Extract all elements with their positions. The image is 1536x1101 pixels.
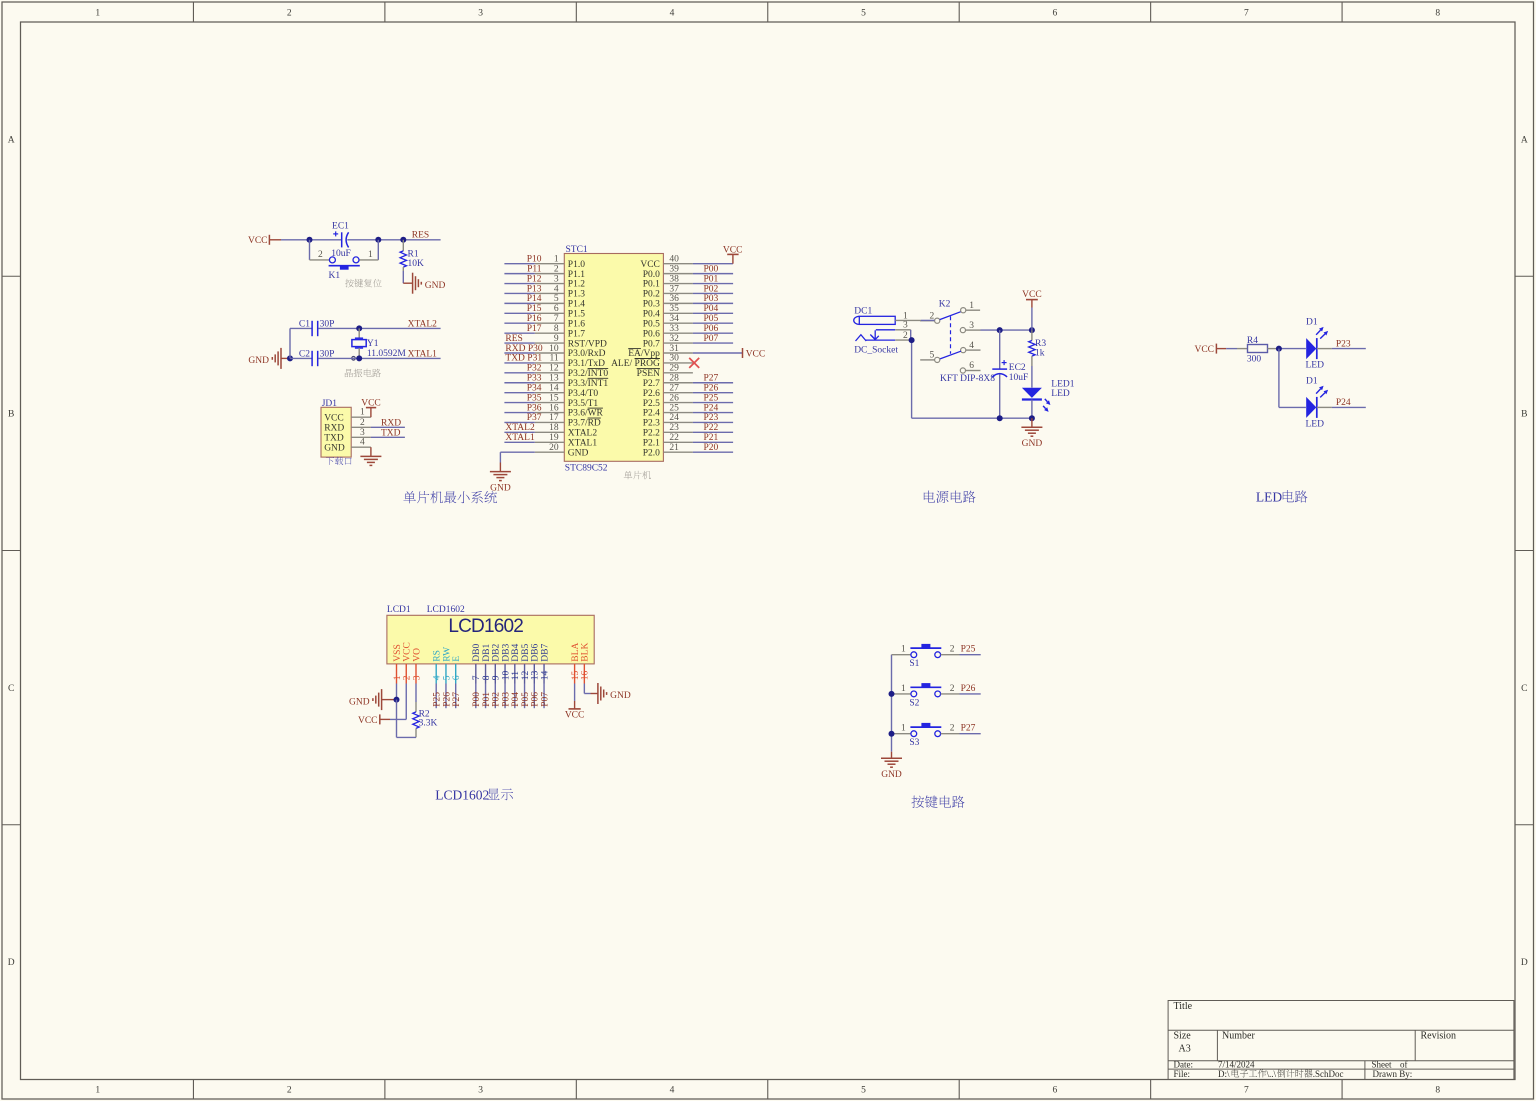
svg-text:P25: P25 bbox=[433, 692, 443, 707]
svg-text:P36: P36 bbox=[527, 403, 542, 413]
wire S1 to P25 bbox=[960, 654, 981, 656]
svg-text:File:: File: bbox=[1174, 1069, 1191, 1079]
svg-text:17: 17 bbox=[549, 413, 559, 423]
svg-text:LED: LED bbox=[1306, 420, 1325, 430]
svg-text:2: 2 bbox=[287, 1086, 292, 1096]
svg-text:P1.0: P1.0 bbox=[568, 260, 585, 270]
svg-text:P2.6: P2.6 bbox=[643, 389, 660, 399]
svg-text:P34: P34 bbox=[527, 383, 542, 393]
svg-text:25: 25 bbox=[669, 403, 679, 413]
svg-text:GND: GND bbox=[490, 483, 511, 493]
svg-text:P15: P15 bbox=[527, 304, 542, 314]
svg-text:B: B bbox=[1521, 410, 1527, 420]
wire C1 to XTAL2 bbox=[318, 327, 440, 329]
push button K1 bbox=[310, 250, 379, 281]
svg-text:EC1: EC1 bbox=[332, 222, 349, 232]
svg-text:P01: P01 bbox=[482, 692, 492, 707]
svg-text:P00: P00 bbox=[704, 264, 719, 274]
svg-text:2: 2 bbox=[950, 645, 955, 655]
node junction rail S3 bbox=[889, 731, 895, 737]
svg-text:P1.4: P1.4 bbox=[568, 300, 585, 310]
svg-text:11: 11 bbox=[511, 671, 521, 680]
svg-text:VSS: VSS bbox=[393, 644, 403, 661]
svg-text:10: 10 bbox=[501, 670, 511, 680]
node junction EC2 top bbox=[997, 327, 1003, 333]
svg-text:K1: K1 bbox=[329, 271, 341, 281]
wire R1 to GND bbox=[402, 271, 404, 283]
svg-text:P11: P11 bbox=[527, 264, 542, 274]
wire LED1 to gnd rail bbox=[1031, 400, 1033, 419]
wire R3 to LED1 bbox=[1031, 366, 1033, 388]
section title MCU minimal system (Chinese) bbox=[403, 491, 497, 503]
svg-text:C2: C2 bbox=[299, 349, 310, 359]
svg-text:P3.2/INT0: P3.2/INT0 bbox=[568, 369, 609, 379]
power port VCC (LCD pin15) bbox=[565, 701, 585, 721]
node junction rail S2 bbox=[889, 691, 895, 697]
svg-text:BLK: BLK bbox=[581, 643, 591, 662]
svg-text:DB3: DB3 bbox=[501, 644, 511, 662]
svg-text:1: 1 bbox=[95, 9, 100, 19]
power port VCC (reset) bbox=[248, 235, 281, 246]
svg-text:11: 11 bbox=[549, 354, 558, 364]
svg-text:GND: GND bbox=[1022, 439, 1043, 449]
svg-text:Title: Title bbox=[1174, 1001, 1193, 1012]
annotation crystal-circuit (Chinese) bbox=[345, 369, 381, 378]
svg-text:LCD1602: LCD1602 bbox=[448, 616, 523, 637]
svg-text:P2.0: P2.0 bbox=[643, 448, 660, 458]
wire gnd up to C1 bbox=[290, 328, 312, 358]
wire junction down to D1b bbox=[1279, 349, 1306, 408]
svg-text:VCC: VCC bbox=[565, 711, 585, 721]
svg-text:1k: 1k bbox=[1035, 348, 1045, 358]
svg-text:P16: P16 bbox=[527, 314, 542, 324]
svg-text:P26: P26 bbox=[442, 692, 452, 707]
svg-text:VCC: VCC bbox=[358, 716, 378, 726]
net labels MCU left bbox=[505, 255, 542, 444]
svg-text:B: B bbox=[8, 410, 14, 420]
svg-text:Size: Size bbox=[1174, 1031, 1192, 1042]
ground (JD1 pin4) bbox=[360, 447, 381, 465]
svg-text:3: 3 bbox=[478, 1086, 483, 1096]
node junction left of EC1 bbox=[307, 237, 313, 243]
wire DC1 to K2 pin2 bbox=[921, 319, 935, 321]
svg-text:D: D bbox=[8, 958, 15, 968]
svg-text:3: 3 bbox=[969, 321, 974, 331]
svg-text:P01: P01 bbox=[704, 274, 719, 284]
svg-text:P2.2: P2.2 bbox=[643, 429, 660, 439]
svg-text:2: 2 bbox=[554, 264, 559, 274]
svg-text:4: 4 bbox=[670, 9, 675, 19]
svg-text:16: 16 bbox=[581, 670, 591, 680]
svg-text:P2.4: P2.4 bbox=[643, 409, 660, 419]
wire K2 pin3 to VCC rail bbox=[981, 329, 1032, 331]
svg-text:P37: P37 bbox=[527, 413, 542, 423]
svg-text:P0.5: P0.5 bbox=[643, 319, 660, 329]
svg-text:P03: P03 bbox=[501, 692, 511, 707]
svg-text:P07: P07 bbox=[704, 334, 719, 344]
svg-text:P04: P04 bbox=[511, 692, 521, 707]
wire DC pin3 junction down bbox=[910, 330, 913, 418]
capacitor C1 30P bbox=[299, 319, 334, 336]
crystal Y1 11.0592M bbox=[352, 328, 407, 360]
svg-text:STC89C52: STC89C52 bbox=[565, 463, 608, 473]
svg-text:P23: P23 bbox=[1336, 339, 1351, 349]
push button S3 bbox=[892, 723, 960, 748]
svg-text:P14: P14 bbox=[527, 294, 542, 304]
svg-text:5: 5 bbox=[442, 675, 452, 680]
svg-text:P23: P23 bbox=[704, 413, 719, 423]
svg-text:10K: 10K bbox=[408, 259, 425, 269]
svg-text:P2.7: P2.7 bbox=[643, 379, 660, 389]
IC U1 right pin stubs bbox=[663, 264, 693, 452]
svg-text:RES: RES bbox=[412, 231, 429, 241]
svg-text:7: 7 bbox=[554, 314, 559, 324]
svg-text:C1: C1 bbox=[299, 319, 310, 329]
svg-text:P0.7: P0.7 bbox=[643, 339, 660, 349]
svg-text:Revision: Revision bbox=[1421, 1031, 1457, 1042]
svg-text:P17: P17 bbox=[527, 324, 542, 334]
IC LCD1 pin stubs bbox=[397, 664, 585, 684]
svg-text:1: 1 bbox=[368, 250, 373, 260]
svg-text:6: 6 bbox=[1053, 9, 1058, 19]
svg-text:D:\: D:\ bbox=[1218, 1069, 1230, 1079]
svg-text:5: 5 bbox=[861, 1086, 866, 1096]
wire VCC to R4 bbox=[1226, 348, 1237, 350]
LED LED1 bbox=[1022, 379, 1075, 412]
svg-text:P1.5: P1.5 bbox=[568, 310, 585, 320]
svg-text:RES: RES bbox=[505, 334, 522, 344]
wire LCD pin16 to gnd bbox=[584, 684, 598, 694]
svg-text:DC_Socket: DC_Socket bbox=[854, 345, 898, 355]
svg-text:P24: P24 bbox=[704, 403, 719, 413]
svg-text:6: 6 bbox=[452, 675, 462, 680]
svg-text:P0.2: P0.2 bbox=[643, 290, 660, 300]
wire S3 to P27 bbox=[960, 733, 981, 735]
svg-text:P27: P27 bbox=[704, 374, 719, 384]
wire D1b to P24 bbox=[1317, 406, 1366, 408]
svg-text:1: 1 bbox=[901, 684, 906, 694]
svg-text:GND: GND bbox=[425, 281, 446, 291]
svg-text:1: 1 bbox=[901, 724, 906, 734]
switch K2 KFT DIP-8X8 bbox=[920, 300, 995, 384]
svg-text:7: 7 bbox=[472, 675, 482, 680]
svg-text:\..\: \..\ bbox=[1267, 1069, 1277, 1079]
svg-text:6: 6 bbox=[1053, 1086, 1058, 1096]
section title LED-circuit bbox=[1256, 490, 1308, 505]
svg-text:P1.3: P1.3 bbox=[568, 290, 585, 300]
svg-text:2: 2 bbox=[318, 250, 323, 260]
svg-text:2: 2 bbox=[287, 9, 292, 19]
ground GND (crystal) bbox=[248, 348, 290, 369]
svg-text:R1: R1 bbox=[408, 249, 419, 259]
svg-text:8: 8 bbox=[1435, 1086, 1440, 1096]
net label RES bbox=[412, 231, 429, 241]
connector DC1 DC_Socket bbox=[854, 307, 921, 356]
title block text bbox=[1174, 1001, 1457, 1079]
svg-text:A: A bbox=[8, 135, 15, 145]
svg-text:1: 1 bbox=[360, 408, 365, 418]
svg-text:R4: R4 bbox=[1247, 336, 1258, 346]
svg-text:P05: P05 bbox=[704, 314, 719, 324]
svg-text:DB5: DB5 bbox=[521, 644, 531, 662]
svg-text:LCD1602: LCD1602 bbox=[427, 605, 465, 615]
svg-text:VCC: VCC bbox=[1194, 345, 1214, 355]
wire S2 to P26 bbox=[960, 693, 981, 695]
svg-text:VCC: VCC bbox=[723, 245, 743, 255]
net labels P25-P27 P00-P07 (rotated) bbox=[433, 692, 551, 707]
svg-text:R3: R3 bbox=[1035, 339, 1046, 349]
section title button-circuit (Chinese) bbox=[911, 795, 964, 807]
svg-text:P35: P35 bbox=[527, 393, 542, 403]
svg-text:2: 2 bbox=[950, 684, 955, 694]
svg-text:GND: GND bbox=[610, 691, 631, 701]
svg-text:VCC: VCC bbox=[1022, 290, 1042, 300]
svg-text:3: 3 bbox=[554, 274, 559, 284]
svg-text:P24: P24 bbox=[1336, 398, 1351, 408]
svg-text:P3.0/RxD: P3.0/RxD bbox=[568, 349, 606, 359]
node junction R3 top bbox=[1029, 327, 1035, 333]
svg-text:VCC: VCC bbox=[746, 349, 766, 359]
svg-text:S1: S1 bbox=[909, 659, 919, 669]
svg-text:29: 29 bbox=[669, 364, 679, 374]
svg-text:K2: K2 bbox=[939, 300, 951, 310]
wire gnd to C2 bbox=[290, 357, 312, 359]
svg-text:XTAL1: XTAL1 bbox=[505, 433, 535, 443]
svg-text:P0.4: P0.4 bbox=[643, 310, 660, 320]
svg-text:7: 7 bbox=[1244, 9, 1249, 19]
svg-text:KFT DIP-8X8: KFT DIP-8X8 bbox=[940, 374, 995, 384]
svg-text:P33: P33 bbox=[527, 374, 542, 384]
svg-text:4: 4 bbox=[670, 1086, 675, 1096]
net labels P00-P07 bbox=[704, 264, 719, 343]
wire button common rail bbox=[891, 655, 893, 752]
svg-text:P25: P25 bbox=[704, 393, 719, 403]
svg-text:P05: P05 bbox=[521, 692, 531, 707]
ground GND (LCD right) bbox=[598, 683, 631, 704]
power port VCC (MCU pin40) bbox=[693, 245, 743, 263]
wire LCD pin3 to R2 bbox=[415, 684, 417, 703]
svg-text:12: 12 bbox=[549, 364, 559, 374]
IC U1 left pin stubs bbox=[535, 264, 565, 452]
svg-text:30: 30 bbox=[669, 354, 679, 364]
svg-text:GND: GND bbox=[324, 444, 345, 454]
svg-text:3.3K: 3.3K bbox=[419, 719, 438, 729]
svg-text:RST/VPD: RST/VPD bbox=[568, 339, 607, 349]
node junction crystal bottom bbox=[356, 355, 362, 361]
svg-text:XTAL1: XTAL1 bbox=[408, 350, 438, 360]
svg-text:7/14/2024: 7/14/2024 bbox=[1218, 1059, 1255, 1069]
svg-text:of: of bbox=[1400, 1059, 1408, 1069]
wire R4 to D1 bbox=[1279, 348, 1306, 350]
IC U1 STC89C52 body bbox=[564, 245, 663, 473]
svg-text:GND: GND bbox=[349, 697, 370, 707]
svg-text:P0.0: P0.0 bbox=[643, 270, 660, 280]
svg-text:GND: GND bbox=[568, 448, 589, 458]
svg-text:P2.5: P2.5 bbox=[643, 399, 660, 409]
node junction after R4 bbox=[1276, 346, 1282, 352]
svg-text:P27: P27 bbox=[961, 724, 976, 734]
power port VCC (MCU pin31 EA) bbox=[693, 348, 765, 359]
svg-text:1: 1 bbox=[95, 1086, 100, 1096]
node junction at R1 bbox=[400, 237, 406, 243]
svg-text:E: E bbox=[452, 656, 462, 662]
push button S2 bbox=[892, 683, 960, 708]
svg-text:PSEN: PSEN bbox=[637, 369, 660, 379]
svg-text:DB4: DB4 bbox=[511, 644, 521, 662]
svg-text:P12: P12 bbox=[527, 274, 542, 284]
svg-text:P32: P32 bbox=[527, 364, 542, 374]
node junction LCD gnd bbox=[394, 697, 400, 703]
svg-text:TXD: TXD bbox=[324, 434, 344, 444]
svg-text:1: 1 bbox=[901, 645, 906, 655]
wire LCD pin15 to VCC bbox=[574, 684, 576, 701]
wire parallel branch left bbox=[309, 240, 311, 260]
node junction EC2 bottom bbox=[997, 415, 1003, 421]
wire JD1 TXD bbox=[371, 436, 405, 438]
svg-text:DB0: DB0 bbox=[472, 644, 482, 662]
ground GND (buttons) bbox=[881, 752, 902, 780]
svg-text:VCC: VCC bbox=[640, 260, 660, 270]
svg-text:EC2: EC2 bbox=[1009, 363, 1026, 373]
wire R2 to gnd junction bbox=[397, 700, 417, 738]
svg-text:P3.5/T1: P3.5/T1 bbox=[568, 399, 599, 409]
node junction crystal top bbox=[356, 325, 362, 331]
svg-text:P2.3: P2.3 bbox=[643, 419, 660, 429]
section title LCD1602 display bbox=[435, 787, 513, 802]
svg-text:P1.7: P1.7 bbox=[568, 329, 585, 339]
svg-text:4: 4 bbox=[360, 438, 365, 448]
svg-text:P06: P06 bbox=[531, 692, 541, 707]
wire LCD pin2 to VCC bbox=[390, 684, 406, 720]
svg-text:3: 3 bbox=[412, 675, 422, 680]
svg-text:13: 13 bbox=[531, 670, 541, 680]
resistor R3 1k bbox=[1029, 330, 1047, 366]
svg-text:VCC: VCC bbox=[248, 236, 268, 246]
svg-text:3: 3 bbox=[478, 9, 483, 19]
svg-text:TXD P31: TXD P31 bbox=[505, 354, 542, 364]
svg-text:DB7: DB7 bbox=[540, 644, 550, 662]
svg-text:Date:: Date: bbox=[1174, 1059, 1194, 1069]
ground GND (LCD left) bbox=[349, 689, 396, 710]
svg-text:.SchDoc: .SchDoc bbox=[1313, 1069, 1344, 1079]
svg-text:LED: LED bbox=[1306, 361, 1325, 371]
svg-text:D1: D1 bbox=[1306, 318, 1318, 328]
svg-text:S2: S2 bbox=[909, 698, 919, 708]
svg-text:11.0592M: 11.0592M bbox=[367, 349, 407, 359]
svg-text:2: 2 bbox=[360, 418, 365, 428]
svg-text:14: 14 bbox=[540, 670, 550, 680]
svg-text:35: 35 bbox=[669, 304, 679, 314]
node junction LED1 bottom bbox=[1029, 415, 1035, 421]
svg-text:RXD: RXD bbox=[324, 424, 344, 434]
svg-text:15: 15 bbox=[571, 670, 581, 680]
svg-text:VCC: VCC bbox=[361, 398, 381, 408]
svg-text:RS: RS bbox=[433, 650, 443, 662]
svg-text:3: 3 bbox=[360, 428, 365, 438]
wire LCD pin1 to gnd bbox=[396, 684, 398, 700]
node junction right of EC1 bbox=[375, 237, 381, 243]
svg-text:P3.1/TxD: P3.1/TxD bbox=[568, 359, 605, 369]
title block bbox=[1168, 1001, 1514, 1080]
svg-text:1: 1 bbox=[393, 675, 403, 680]
svg-text:Drawn By:: Drawn By: bbox=[1373, 1069, 1413, 1079]
power port VCC (power circuit) bbox=[1022, 290, 1042, 330]
svg-text:DC1: DC1 bbox=[854, 307, 872, 317]
svg-text:Sheet: Sheet bbox=[1372, 1059, 1392, 1069]
svg-text:D1: D1 bbox=[1306, 376, 1318, 386]
wires MCU right P0 port bbox=[693, 274, 733, 343]
svg-text:2: 2 bbox=[403, 675, 413, 680]
power port VCC (LED circuit) bbox=[1194, 344, 1226, 355]
svg-text:LED: LED bbox=[1051, 389, 1070, 399]
resistor R4 300 bbox=[1237, 336, 1279, 365]
svg-text:P1.2: P1.2 bbox=[568, 280, 585, 290]
push button S1 bbox=[892, 644, 960, 669]
svg-text:VCC: VCC bbox=[324, 413, 344, 423]
svg-text:8: 8 bbox=[1435, 9, 1440, 19]
svg-text:300: 300 bbox=[1247, 355, 1262, 365]
svg-text:P3.6/WR: P3.6/WR bbox=[568, 409, 604, 419]
svg-text:D: D bbox=[1521, 958, 1528, 968]
svg-text:P06: P06 bbox=[704, 324, 719, 334]
svg-text:P1.6: P1.6 bbox=[568, 319, 585, 329]
no-ERC marker pin30 bbox=[689, 358, 699, 368]
svg-text:P04: P04 bbox=[704, 304, 719, 314]
svg-text:P0.3: P0.3 bbox=[643, 300, 660, 310]
wires MCU right P2 port bbox=[693, 383, 733, 452]
IC LCD1 LCD1602 body bbox=[387, 605, 594, 664]
wire VCC to RES bbox=[281, 239, 441, 241]
resistor R1 10K bbox=[400, 240, 424, 271]
capacitor C2 30P bbox=[299, 349, 334, 366]
svg-text:A: A bbox=[1521, 135, 1528, 145]
wires MCU left pins bbox=[504, 264, 534, 443]
svg-text:7: 7 bbox=[1244, 1086, 1249, 1096]
svg-text:P20: P20 bbox=[704, 443, 719, 453]
svg-text:P00: P00 bbox=[472, 692, 482, 707]
svg-text:TXD: TXD bbox=[381, 428, 401, 438]
connector JD1 bbox=[321, 399, 371, 457]
svg-text:2: 2 bbox=[950, 724, 955, 734]
svg-text:VCC: VCC bbox=[403, 642, 413, 662]
power port VCC (LCD left) bbox=[358, 714, 390, 726]
LED D1 (P24) bbox=[1306, 376, 1329, 429]
ground GND (MCU) bbox=[490, 463, 511, 494]
svg-text:P3.7/RD: P3.7/RD bbox=[568, 419, 601, 429]
svg-text:P1.1: P1.1 bbox=[568, 270, 585, 280]
svg-text:XTAL2: XTAL2 bbox=[568, 429, 598, 439]
svg-text:2: 2 bbox=[903, 331, 908, 341]
svg-text:8: 8 bbox=[482, 675, 492, 680]
annotation reset-button (Chinese) bbox=[345, 279, 382, 288]
svg-text:LCD1: LCD1 bbox=[387, 605, 411, 615]
svg-text:P13: P13 bbox=[527, 284, 542, 294]
wire gnd rail (power) bbox=[912, 417, 1032, 419]
wire parallel branch right bbox=[377, 240, 379, 260]
LED D1 (P23) bbox=[1306, 318, 1329, 371]
annotation download-port (Chinese) bbox=[326, 457, 352, 465]
svg-text:P07: P07 bbox=[540, 692, 550, 707]
svg-text:C: C bbox=[1521, 684, 1527, 694]
capacitor EC1 bbox=[331, 222, 351, 260]
svg-text:DB6: DB6 bbox=[531, 644, 541, 662]
svg-text:P2.1: P2.1 bbox=[643, 439, 660, 449]
svg-text:38: 38 bbox=[669, 274, 679, 284]
ground GND (reset) bbox=[403, 273, 445, 294]
svg-text:XTAL2: XTAL2 bbox=[505, 423, 535, 433]
svg-text:16: 16 bbox=[549, 403, 559, 413]
ground GND (power circuit) bbox=[1021, 418, 1042, 449]
